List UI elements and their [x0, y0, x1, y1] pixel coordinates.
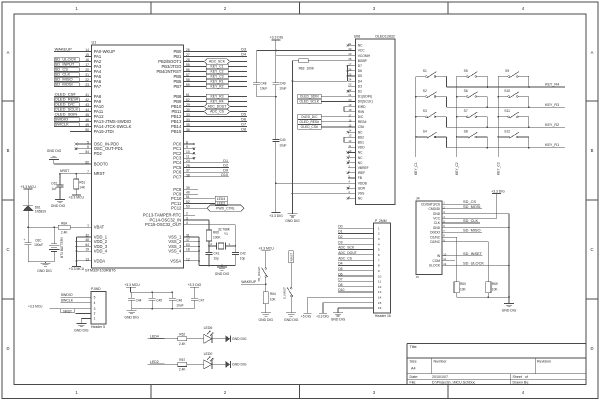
svg-text:10K: 10K — [492, 288, 499, 292]
LED LED0 — [204, 352, 214, 369]
wire and net label D1 at header — [338, 230, 374, 234]
svg-text:SD_INSET: SD_INSET — [463, 251, 483, 256]
svg-text:ADC_SCK: ADC_SCK — [209, 60, 226, 64]
power flag +3.3 DIG above SD card — [491, 189, 505, 218]
svg-text:C41: C41 — [214, 251, 220, 255]
svg-text:10uF: 10uF — [279, 143, 286, 147]
svg-text:+3.3 MCU: +3.3 MCU — [20, 185, 36, 189]
wire and net label ADC_DOUT at header — [338, 251, 374, 255]
svg-text:SD_ULOCK: SD_ULOCK — [463, 260, 484, 265]
wire and net label D4 — [190, 53, 247, 57]
svg-text:1: 1 — [378, 226, 380, 230]
svg-text:CS#: CS# — [358, 125, 365, 129]
wire and net label D9 — [190, 168, 229, 172]
svg-text:S12: S12 — [504, 129, 510, 133]
wire VCC pin 4 to +3.3 DIG — [448, 217, 497, 219]
svg-text:14: 14 — [85, 48, 89, 52]
svg-text:SD_MOSI: SD_MOSI — [463, 204, 481, 209]
capacitor C42 10p — [232, 246, 246, 266]
capacitor C41 10p — [206, 246, 220, 266]
svg-text:SD_MISO: SD_MISO — [463, 227, 481, 232]
svg-text:+3.3 MCU: +3.3 MCU — [124, 283, 140, 287]
wire VSS to ground — [292, 192, 348, 194]
resistor R67 2.4K — [178, 358, 204, 371]
svg-text:+3.3 DIG: +3.3 DIG — [188, 283, 202, 287]
svg-text:18: 18 — [186, 248, 190, 252]
svg-text:7: 7 — [87, 170, 89, 174]
svg-text:GND DIG: GND DIG — [331, 317, 346, 321]
svg-text:10uF: 10uF — [260, 87, 267, 91]
svg-text:22: 22 — [348, 88, 351, 92]
svg-text:24: 24 — [348, 78, 351, 82]
MCU U1 left pins PA0-PA15 PD0-PD2 BOOT0 NRST VBAT VDD with pin numbers — [85, 48, 132, 263]
svg-text:D3: D3 — [358, 84, 362, 88]
svg-text:11: 11 — [378, 280, 381, 284]
svg-text:OLED_RES#: OLED_RES# — [300, 120, 320, 124]
wire and net label D2 at header — [338, 235, 374, 239]
wire and net label D10 at header — [338, 288, 374, 292]
svg-text:ULOCK: ULOCK — [429, 264, 441, 268]
svg-text:10: 10 — [378, 274, 382, 278]
ground GND DIG below OLED — [285, 214, 300, 223]
wire R63 ground leg — [292, 61, 294, 214]
svg-text:D5: D5 — [241, 113, 246, 117]
svg-text:S2: S2 — [423, 89, 427, 93]
svg-text:D7: D7 — [241, 123, 246, 127]
svg-text:Header 16: Header 16 — [375, 314, 391, 318]
svg-text:10: 10 — [186, 150, 190, 154]
svg-text:NRST: NRST — [290, 253, 294, 262]
switch S12 — [497, 129, 529, 148]
svg-text:S8: S8 — [464, 129, 468, 133]
svg-text:11: 11 — [186, 155, 190, 159]
svg-text:1uF: 1uF — [52, 187, 58, 191]
svg-text:S10: S10 — [504, 89, 510, 93]
svg-text:R67: R67 — [179, 358, 185, 362]
svg-text:17: 17 — [85, 63, 89, 67]
svg-text:2.4K: 2.4K — [61, 231, 68, 235]
svg-text:NC: NC — [358, 161, 363, 165]
wire cap rail top — [131, 291, 174, 293]
svg-text:D6: D6 — [241, 118, 246, 122]
svg-text:36: 36 — [186, 128, 190, 132]
svg-text:E/RD: E/RD — [358, 105, 366, 109]
svg-text:PD2: PD2 — [94, 151, 103, 156]
svg-text:BS1: BS1 — [358, 141, 364, 145]
svg-text:D:\Projects\..\MCU.SchDoc: D:\Projects\..\MCU.SchDoc — [432, 381, 476, 385]
svg-text:10K: 10K — [270, 298, 277, 302]
ground arrow GND DIG after LED0 — [212, 361, 247, 368]
svg-text:GND DIG: GND DIG — [232, 337, 247, 341]
svg-text:GND DIG: GND DIG — [124, 315, 139, 319]
svg-text:PWD_CTRL: PWD_CTRL — [216, 207, 235, 211]
svg-text:R/W: R/W — [358, 110, 365, 114]
svg-text:GND DIG: GND DIG — [215, 272, 230, 276]
svg-text:VDDA: VDDA — [94, 258, 106, 263]
ground GND DIG below R64 — [259, 304, 274, 322]
svg-text:S_NRST: S_NRST — [282, 287, 286, 299]
svg-text:PC12: PC12 — [171, 206, 182, 211]
svg-text:11: 11 — [348, 144, 351, 148]
power flag +3.3 MCU at VDD bus — [69, 267, 85, 272]
svg-text:+3.3 MCU: +3.3 MCU — [258, 247, 274, 251]
svg-text:R69: R69 — [492, 282, 498, 286]
power flag +3.3 MCU above D61 — [20, 185, 36, 189]
svg-text:S7: S7 — [464, 109, 468, 113]
wire PC15 OSC32_OUT to oscillator — [190, 225, 235, 246]
wire and net label SD_MOSI — [448, 204, 482, 209]
svg-text:16: 16 — [378, 306, 382, 310]
svg-text:52: 52 — [186, 200, 190, 204]
svg-text:C44: C44 — [136, 298, 142, 302]
switch S3 — [415, 109, 447, 127]
svg-text:D4: D4 — [241, 53, 246, 57]
MCU U1 STM32F103RBT6 block outline — [85, 40, 184, 272]
battery BT1 BATTERY — [49, 227, 64, 261]
svg-text:ADC_DOUT: ADC_DOUT — [338, 251, 357, 255]
svg-text:D3: D3 — [241, 48, 246, 52]
svg-text:GND DIG: GND DIG — [502, 308, 517, 312]
svg-text:+3.3 DIG: +3.3 DIG — [491, 189, 505, 193]
svg-text:29: 29 — [186, 103, 190, 107]
svg-text:OLED_SDIN: OLED_SDIN — [300, 95, 319, 99]
boxed net label OLED_SDIN — [298, 94, 348, 99]
svg-text:SWDIO: SWDIO — [61, 293, 73, 297]
svg-text:GDR: GDR — [358, 186, 366, 190]
svg-text:26: 26 — [186, 48, 190, 52]
svg-text:22: 22 — [85, 78, 89, 82]
svg-text:D5: D5 — [338, 267, 342, 271]
wire and net label ADC_CS at header — [338, 256, 374, 260]
wire and net label SWCLK to MCU — [54, 122, 85, 127]
svg-text:51: 51 — [186, 195, 190, 199]
boxed net label OLED_D/C — [298, 114, 348, 119]
svg-text:15: 15 — [378, 301, 382, 305]
svg-text:16: 16 — [348, 118, 351, 122]
wire and net label OLED_SCLK to MCU — [54, 107, 85, 112]
wire and net label D10 — [190, 173, 229, 177]
svg-text:58: 58 — [186, 78, 190, 82]
switch S6 — [456, 89, 488, 108]
svg-text:C40: C40 — [280, 138, 286, 142]
svg-text:D6: D6 — [358, 69, 362, 73]
svg-text:9: 9 — [378, 269, 380, 273]
svg-text:GND DIG: GND DIG — [285, 219, 300, 223]
capacitor C45 10uF — [149, 292, 163, 308]
svg-text:38: 38 — [186, 173, 190, 177]
wire rail to OLED pin 29 — [276, 55, 348, 57]
svg-text:D0/DO: D0/DO — [430, 231, 440, 235]
wire and net label SD_ULOCK to MCU — [54, 57, 85, 62]
ground GND DIG below SD card — [502, 304, 517, 313]
svg-text:A4: A4 — [411, 366, 416, 370]
svg-text:+3.3 MCU: +3.3 MCU — [69, 196, 85, 200]
svg-text:25: 25 — [186, 164, 190, 168]
wire and net label D8 at header — [338, 283, 374, 287]
wire PA15 stub — [70, 131, 85, 133]
svg-text:21: 21 — [85, 73, 89, 77]
crystal Y1 32.768K — [208, 227, 236, 249]
svg-text:19: 19 — [85, 248, 89, 252]
svg-text:S11: S11 — [504, 109, 510, 113]
svg-text:10: 10 — [443, 252, 446, 256]
svg-text:D1(SDIN): D1(SDIN) — [358, 95, 372, 99]
svg-text:S5_WKUP: S5_WKUP — [257, 267, 261, 282]
svg-text:3: 3 — [94, 307, 96, 311]
switch S9 — [498, 69, 530, 88]
switch S4 — [415, 129, 447, 147]
svg-text:18: 18 — [348, 108, 351, 112]
svg-text:23: 23 — [348, 83, 351, 87]
svg-text:12: 12 — [348, 139, 351, 143]
svg-text:D8: D8 — [338, 283, 342, 287]
wire and net label OLED_SDIN to MCU — [54, 112, 85, 117]
svg-text:R64: R64 — [270, 292, 276, 296]
wire VDD bus — [76, 237, 85, 267]
svg-text:23: 23 — [85, 83, 89, 87]
svg-text:+3.3 MCU: +3.3 MCU — [28, 305, 43, 309]
wire cap rail bottom — [132, 308, 195, 310]
svg-text:S3: S3 — [423, 109, 427, 113]
svg-text:SD_CLK: SD_CLK — [463, 218, 479, 223]
svg-text:KEY_C3: KEY_C3 — [497, 162, 501, 175]
boxed net label NRST vertical — [289, 251, 294, 263]
svg-text:49: 49 — [85, 123, 89, 127]
svg-text:NRST: NRST — [60, 169, 69, 173]
svg-text:KEY_R3: KEY_R3 — [545, 103, 559, 107]
svg-text:KEY_C2: KEY_C2 — [210, 70, 223, 74]
switch S11 — [497, 109, 529, 128]
svg-text:4: 4 — [94, 301, 96, 305]
svg-text:D10: D10 — [338, 288, 344, 292]
svg-text:VBREF: VBREF — [358, 166, 369, 170]
svg-text:VCOMH: VCOMH — [358, 54, 371, 58]
svg-text:53: 53 — [186, 205, 190, 209]
svg-text:C47: C47 — [198, 298, 204, 302]
svg-text:BGBP: BGBP — [358, 59, 368, 63]
diode D61 1N5819 — [23, 189, 46, 227]
wire VBAT node with junctions — [27, 226, 58, 228]
svg-text:29: 29 — [348, 52, 351, 56]
wire battery bottom rail — [28, 261, 54, 263]
svg-text:15: 15 — [85, 53, 89, 57]
svg-text:D7: D7 — [358, 64, 362, 68]
svg-text:S9: S9 — [505, 69, 509, 73]
svg-text:C: C — [590, 247, 593, 252]
svg-text:16: 16 — [85, 58, 89, 62]
svg-text:VSSA: VSSA — [170, 258, 181, 263]
svg-text:100K: 100K — [213, 236, 221, 240]
wire and net label OLED_RES# to MCU — [54, 97, 85, 102]
stubs PC8 PC9 PC13 — [190, 189, 198, 215]
svg-text:54: 54 — [85, 150, 89, 154]
wire and net label SD_CS — [448, 199, 480, 204]
power flag +5 DIG at header pin 14 — [301, 297, 373, 318]
svg-text:KEY_R3: KEY_R3 — [210, 95, 223, 99]
svg-text:D10: D10 — [221, 173, 228, 177]
capacitor C49 10uF — [272, 82, 286, 97]
wire GND pin 6 to ground bus — [448, 227, 510, 229]
svg-text:NC: NC — [358, 44, 363, 48]
wire row KEY_R3 — [447, 103, 566, 107]
svg-text:2: 2 — [186, 212, 188, 216]
wire PC14 OSC32_IN to oscillator — [190, 220, 209, 230]
power flag +3.3 MCU above S5_WKUP — [258, 247, 274, 268]
wire and net label D7 at header — [338, 278, 374, 282]
boxed net label LED4 — [190, 196, 227, 201]
svg-text:KEY_C1: KEY_C1 — [414, 162, 418, 175]
capacitor C40 10uF — [272, 97, 286, 213]
svg-text:KEY_R4: KEY_R4 — [210, 100, 223, 104]
svg-text:D2: D2 — [223, 164, 228, 168]
svg-text:VDD_4: VDD_4 — [94, 248, 108, 253]
resistor R64 10K — [263, 292, 276, 304]
svg-text:CMD/DI: CMD/DI — [429, 207, 441, 211]
wire and net label D7 — [190, 123, 247, 127]
wire and net label SD_MISO to MCU — [54, 77, 85, 82]
svg-text:RES#: RES# — [358, 120, 367, 124]
svg-text:SWCLK: SWCLK — [61, 299, 74, 303]
svg-text:NRST: NRST — [63, 309, 72, 313]
ground GND DIG below S_NRST — [284, 297, 299, 322]
svg-text:30: 30 — [186, 108, 190, 112]
svg-text:PB15: PB15 — [171, 129, 182, 134]
svg-text:R63: R63 — [299, 66, 305, 70]
svg-text:3: 3 — [378, 237, 380, 241]
svg-text:11: 11 — [443, 257, 446, 261]
svg-text:ADC_CS: ADC_CS — [338, 256, 352, 260]
svg-text:+3.3 DIG: +3.3 DIG — [269, 214, 283, 218]
boxed net label NRST at PJWD — [61, 309, 85, 314]
svg-text:24: 24 — [186, 159, 190, 163]
svg-text:R62: R62 — [179, 333, 185, 337]
svg-text:NRST: NRST — [94, 171, 106, 176]
boxed net label KEY_R2 — [190, 84, 247, 89]
svg-text:File:: File: — [410, 381, 417, 385]
boxed net label OLED_SCLK — [298, 99, 348, 104]
wire and net label D5 at header — [338, 267, 374, 271]
svg-text:63: 63 — [186, 243, 190, 247]
power flag +3.3 MCU at C44 — [124, 283, 140, 292]
wire and net label SD_INSET — [448, 251, 483, 256]
wire and net label ADC_SCK at header — [338, 246, 374, 250]
svg-text:U1: U1 — [92, 40, 97, 44]
svg-text:BT1 BATTERY: BT1 BATTERY — [60, 236, 64, 258]
svg-text:C49: C49 — [280, 82, 286, 86]
svg-text:30: 30 — [348, 47, 351, 51]
svg-text:2: 2 — [94, 312, 96, 316]
svg-text:5: 5 — [94, 295, 96, 299]
svg-text:8: 8 — [186, 140, 188, 144]
svg-text:PC15-OSC32_OUT: PC15-OSC32_OUT — [145, 222, 182, 227]
svg-text:VSS: VSS — [358, 192, 365, 196]
svg-text:12: 12 — [443, 262, 446, 266]
resistor R63 100K — [293, 59, 348, 71]
wire and net label SWCLK to PJWD — [61, 299, 85, 303]
svg-text:GND DIG: GND DIG — [37, 269, 52, 273]
svg-text:3: 3 — [186, 216, 188, 220]
svg-text:32.768K: 32.768K — [218, 227, 231, 231]
switch S7 — [456, 109, 488, 128]
svg-text:2: 2 — [378, 232, 380, 236]
wire and net label OLED_D/C to MCU — [54, 102, 85, 107]
svg-text:20: 20 — [85, 68, 89, 72]
svg-text:KEY_R4: KEY_R4 — [545, 83, 559, 87]
wire and net label WAKEUP — [241, 277, 267, 291]
svg-text:OLED_D/C: OLED_D/C — [301, 115, 318, 119]
svg-text:48: 48 — [85, 238, 89, 242]
PJWD pin stubs and numbers 1-5 — [85, 295, 96, 320]
wire and net label SD_CLK to MCU — [54, 72, 85, 77]
svg-text:A: A — [591, 50, 594, 55]
svg-text:NC: NC — [358, 197, 363, 201]
svg-text:COM: COM — [433, 259, 441, 263]
wire D1 pin 8 to R60 — [448, 237, 457, 282]
svg-text:D: D — [6, 346, 9, 351]
wire VCC rail to OLED pin 30 — [257, 50, 348, 83]
wire and net label SD_INPUT to MCU — [54, 62, 85, 67]
power flag +3.3 DIG below C40 — [269, 213, 283, 218]
resistor R66 100K — [206, 230, 221, 241]
svg-text:Header 5: Header 5 — [91, 325, 105, 329]
svg-text:+3.3 MCU: +3.3 MCU — [69, 267, 85, 271]
svg-text:KEY_C1: KEY_C1 — [210, 65, 223, 69]
svg-text:25: 25 — [348, 73, 351, 77]
svg-text:Sheet of: Sheet of — [513, 375, 528, 379]
wire and net label LED2 — [148, 360, 178, 364]
svg-text:10K: 10K — [460, 288, 467, 292]
svg-text:GND DIG: GND DIG — [74, 328, 89, 332]
svg-text:STM32F103RBT6: STM32F103RBT6 — [85, 269, 116, 273]
power flag +3.3 MCU below R61 — [69, 189, 85, 200]
svg-text:5: 5 — [87, 140, 89, 144]
svg-text:KEY_R1: KEY_R1 — [545, 143, 559, 147]
wire column KEY_C1 vertical — [414, 76, 418, 175]
port ADC_SCK — [190, 59, 247, 64]
switch S2 — [415, 89, 447, 107]
svg-text:C42: C42 — [240, 251, 246, 255]
svg-text:28: 28 — [186, 58, 190, 62]
svg-text:ADC_DOUT: ADC_DOUT — [208, 105, 227, 109]
svg-text:7: 7 — [378, 258, 380, 262]
svg-text:34: 34 — [186, 118, 190, 122]
svg-text:CLK: CLK — [434, 221, 441, 225]
wire SD ground bus vertical — [508, 214, 510, 304]
svg-text:Revision: Revision — [537, 359, 551, 363]
wire cap bottom rail — [257, 96, 277, 98]
boxed net label KEY_C1 — [190, 64, 247, 69]
svg-text:D6: D6 — [338, 272, 342, 276]
wire VDDB to +3.3 DIG — [276, 182, 348, 184]
svg-text:GND: GND — [433, 212, 441, 216]
wire pullup bottom rail — [457, 293, 510, 298]
svg-text:19: 19 — [348, 103, 351, 107]
svg-text:62: 62 — [186, 98, 190, 102]
svg-text:OLED_SCLK: OLED_SCLK — [300, 100, 320, 104]
svg-text:41: 41 — [85, 93, 89, 97]
svg-text:D1: D1 — [338, 230, 342, 234]
svg-text:D2: D2 — [358, 90, 362, 94]
svg-text:13: 13 — [378, 290, 382, 294]
svg-text:4: 4 — [378, 242, 380, 246]
svg-text:GND: GND — [433, 226, 441, 230]
svg-text:OLED_CS#: OLED_CS# — [301, 125, 318, 129]
svg-text:56: 56 — [186, 68, 190, 72]
svg-text:D4: D4 — [358, 79, 362, 83]
boxed net label OLED_CS# — [298, 125, 348, 130]
svg-text:Number: Number — [434, 359, 448, 363]
svg-text:VSS_4: VSS_4 — [168, 248, 182, 253]
